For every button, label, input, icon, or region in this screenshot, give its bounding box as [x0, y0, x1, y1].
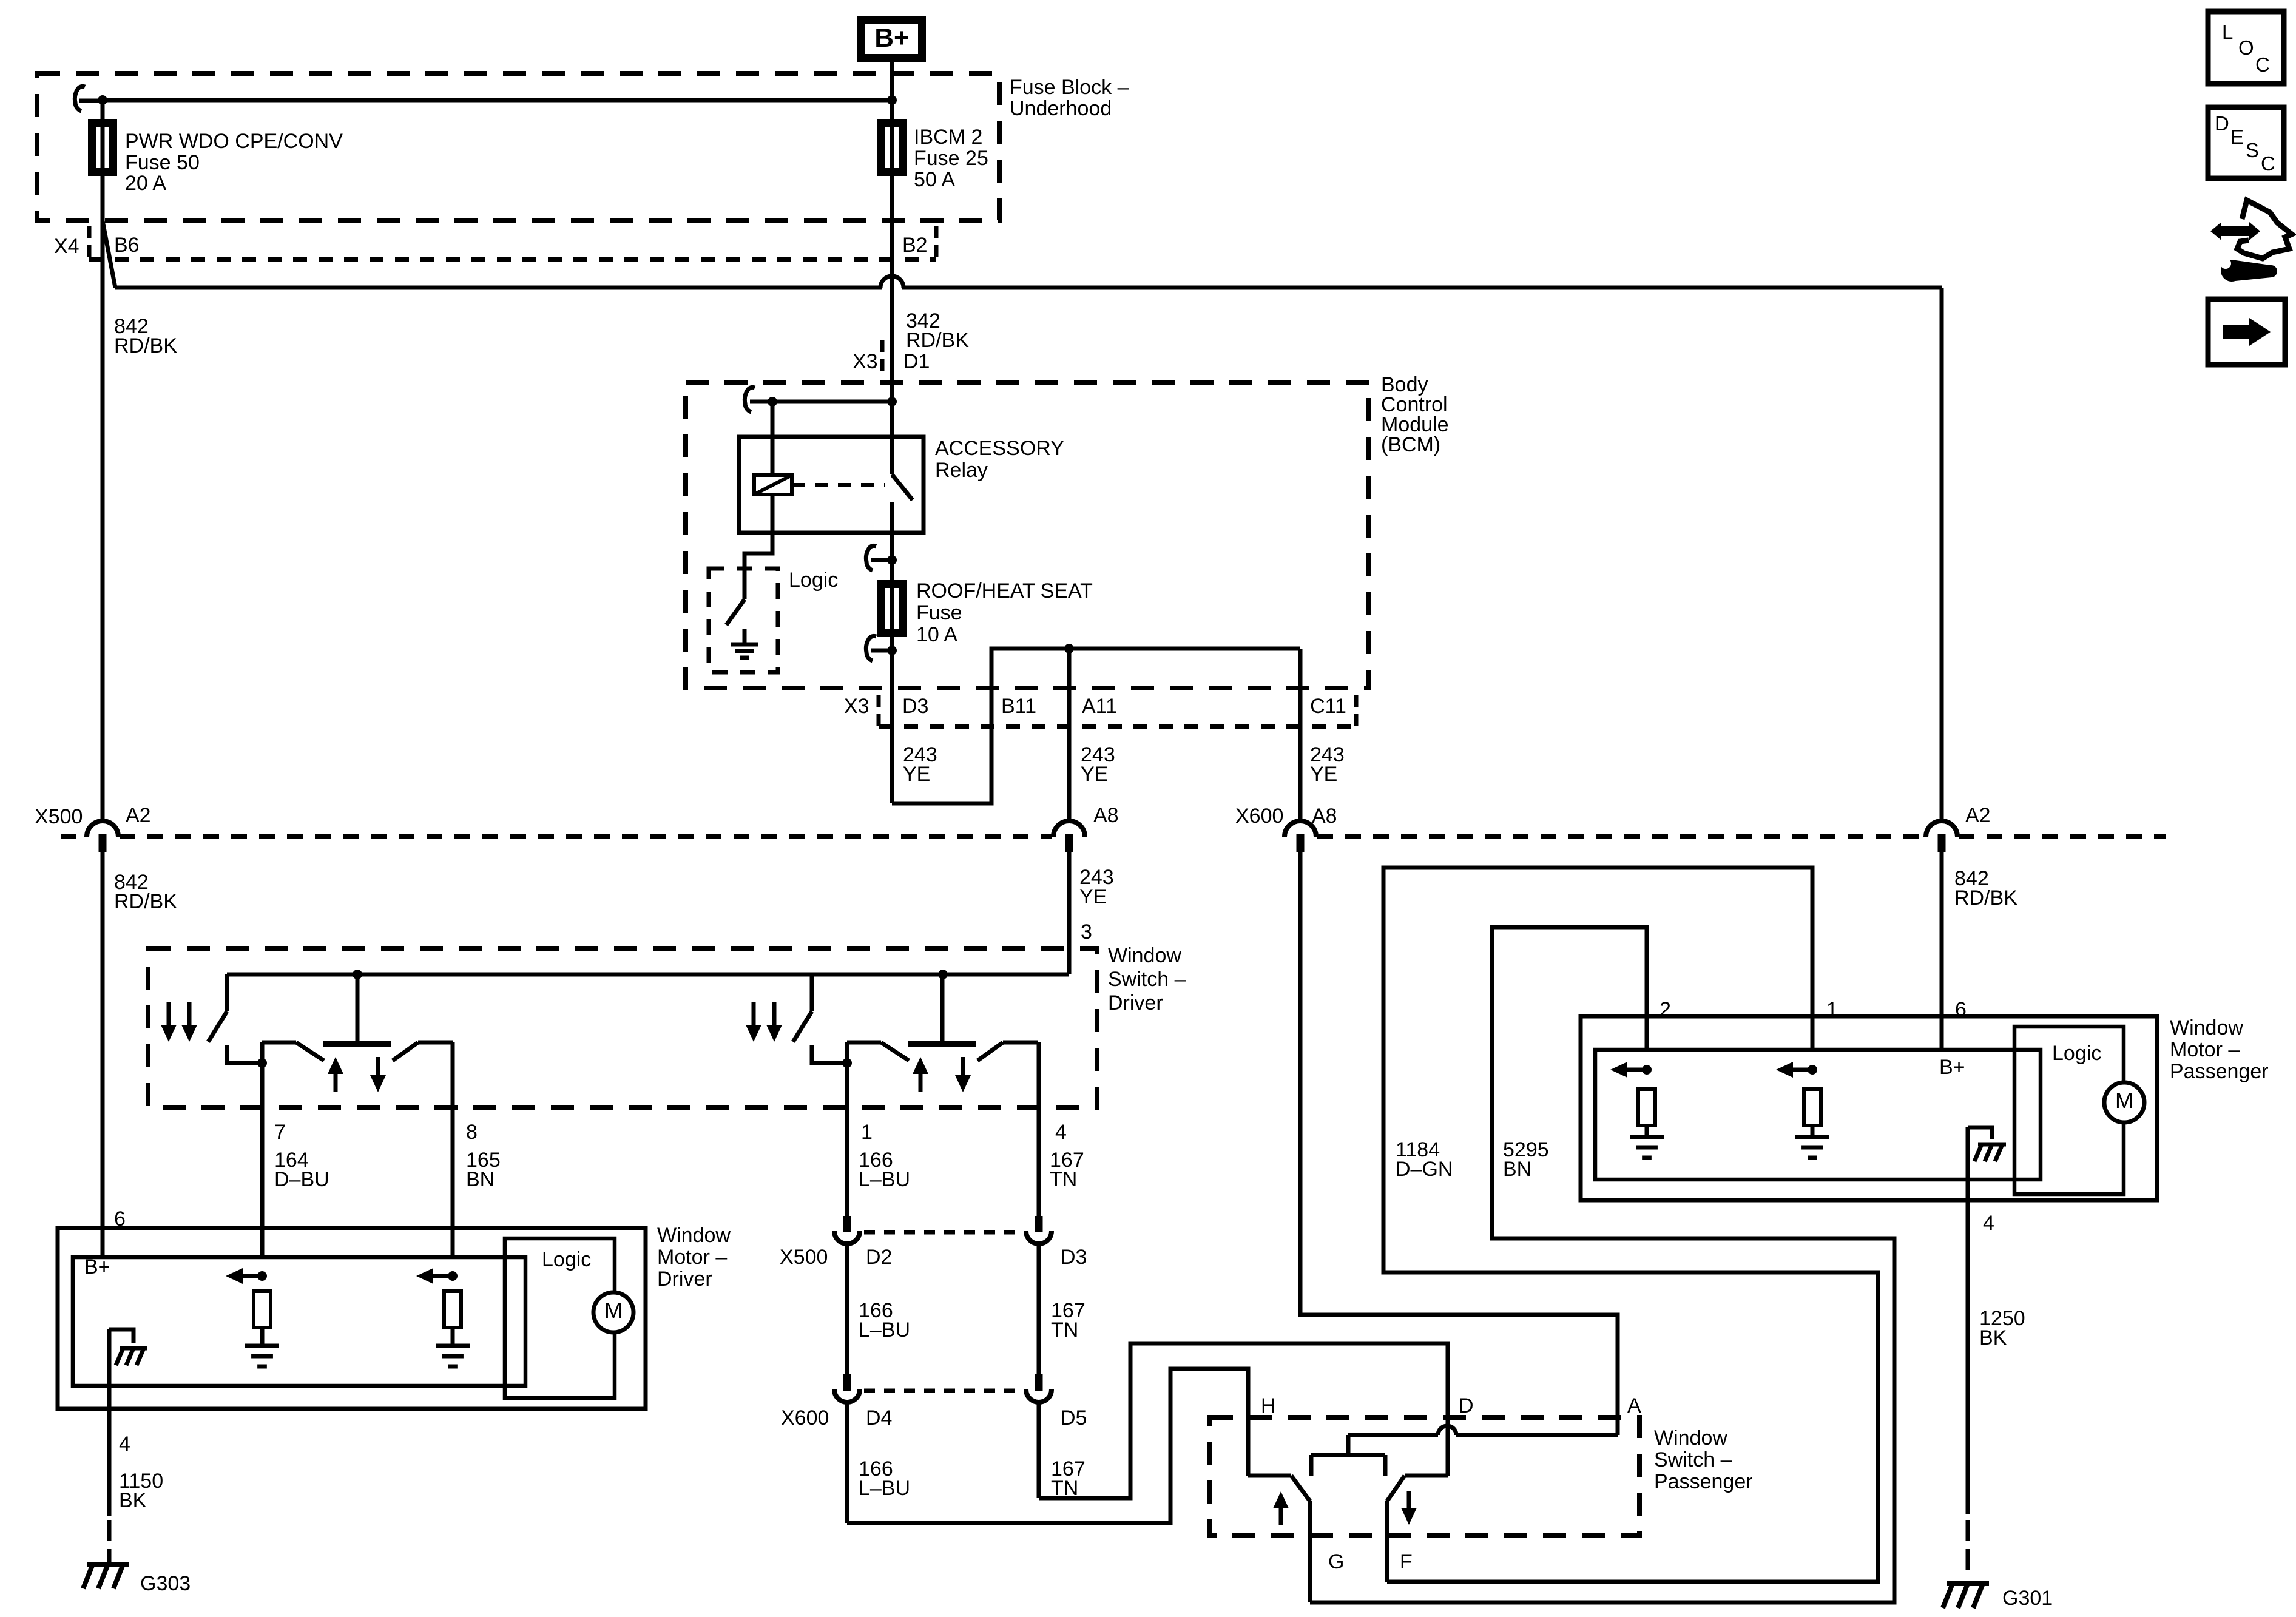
- svg-text:20 A: 20 A: [125, 172, 166, 195]
- svg-text:A2: A2: [1965, 804, 1991, 827]
- svg-text:1: 1: [1826, 998, 1838, 1021]
- svg-text:G303: G303: [140, 1572, 191, 1595]
- svg-text:Driver: Driver: [1108, 991, 1163, 1014]
- svg-text:4: 4: [119, 1433, 130, 1456]
- svg-text:YE: YE: [903, 763, 930, 786]
- svg-text:B+: B+: [874, 23, 909, 53]
- svg-text:X3: X3: [844, 695, 869, 718]
- svg-text:RD/BK: RD/BK: [114, 890, 177, 913]
- svg-text:B+: B+: [84, 1255, 110, 1278]
- svg-text:Driver: Driver: [657, 1268, 712, 1291]
- svg-text:YE: YE: [1079, 885, 1107, 908]
- svg-text:Logic: Logic: [542, 1248, 591, 1271]
- svg-text:Logic: Logic: [789, 569, 838, 592]
- svg-text:2: 2: [1660, 998, 1671, 1021]
- svg-text:D–BU: D–BU: [274, 1168, 329, 1191]
- svg-text:A: A: [1627, 1394, 1641, 1417]
- svg-text:D4: D4: [866, 1406, 892, 1430]
- svg-text:YE: YE: [1310, 763, 1337, 786]
- svg-text:X500: X500: [780, 1246, 828, 1269]
- svg-text:A8: A8: [1312, 805, 1337, 828]
- svg-text:X600: X600: [1235, 805, 1283, 828]
- svg-text:Switch –: Switch –: [1654, 1448, 1732, 1471]
- svg-text:X600: X600: [781, 1406, 829, 1430]
- svg-text:G301: G301: [2002, 1587, 2053, 1610]
- svg-text:ROOF/HEAT SEAT: ROOF/HEAT SEAT: [916, 579, 1093, 603]
- svg-text:6: 6: [114, 1207, 126, 1230]
- svg-text:M: M: [604, 1298, 623, 1323]
- svg-text:L: L: [2222, 21, 2233, 43]
- svg-text:B6: B6: [114, 234, 140, 257]
- svg-text:B11: B11: [1001, 695, 1036, 718]
- svg-text:Passenger: Passenger: [2170, 1060, 2269, 1083]
- svg-text:YE: YE: [1081, 763, 1108, 786]
- svg-text:M: M: [2115, 1088, 2133, 1113]
- svg-text:Switch –: Switch –: [1108, 968, 1186, 991]
- svg-text:D3: D3: [1061, 1246, 1087, 1269]
- svg-text:IBCM 2: IBCM 2: [914, 126, 982, 149]
- svg-text:(BCM): (BCM): [1381, 433, 1440, 456]
- svg-text:G: G: [1328, 1550, 1344, 1573]
- svg-text:D3: D3: [902, 695, 928, 718]
- svg-text:A11: A11: [1082, 695, 1117, 718]
- svg-text:7: 7: [274, 1121, 286, 1144]
- svg-text:BN: BN: [466, 1168, 495, 1191]
- svg-text:L–BU: L–BU: [859, 1168, 910, 1191]
- svg-text:C: C: [2255, 53, 2270, 76]
- svg-text:L–BU: L–BU: [859, 1477, 910, 1500]
- svg-text:Motor –: Motor –: [2170, 1038, 2240, 1061]
- svg-text:D2: D2: [866, 1246, 892, 1269]
- svg-text:H: H: [1261, 1394, 1276, 1417]
- svg-text:Motor –: Motor –: [657, 1246, 727, 1269]
- svg-text:Window: Window: [2170, 1016, 2243, 1039]
- svg-text:Fuse 25: Fuse 25: [914, 147, 988, 170]
- svg-text:C: C: [2261, 152, 2275, 175]
- svg-text:BN: BN: [1503, 1158, 1531, 1181]
- svg-text:Window: Window: [1654, 1426, 1727, 1450]
- svg-text:L–BU: L–BU: [859, 1318, 910, 1342]
- svg-text:Fuse 50: Fuse 50: [125, 151, 200, 174]
- svg-text:Window: Window: [657, 1224, 731, 1247]
- svg-text:6: 6: [1955, 998, 1967, 1021]
- svg-text:Window: Window: [1108, 944, 1181, 967]
- svg-text:Fuse Block –: Fuse Block –: [1010, 76, 1129, 99]
- svg-text:8: 8: [466, 1121, 478, 1144]
- svg-text:B2: B2: [902, 234, 928, 257]
- svg-text:RD/BK: RD/BK: [906, 329, 969, 352]
- svg-text:TN: TN: [1051, 1318, 1078, 1342]
- svg-text:BK: BK: [119, 1489, 147, 1512]
- svg-text:A8: A8: [1093, 804, 1119, 827]
- svg-text:D–GN: D–GN: [1396, 1158, 1453, 1181]
- svg-text:TN: TN: [1050, 1168, 1077, 1191]
- svg-text:S: S: [2246, 139, 2259, 161]
- svg-text:Relay: Relay: [935, 459, 988, 482]
- svg-text:4: 4: [1055, 1121, 1067, 1144]
- svg-text:C11: C11: [1310, 695, 1346, 718]
- svg-text:D5: D5: [1061, 1406, 1087, 1430]
- svg-text:ACCESSORY: ACCESSORY: [935, 437, 1064, 460]
- svg-text:PWR WDO CPE/CONV: PWR WDO CPE/CONV: [125, 130, 343, 153]
- svg-text:X4: X4: [54, 235, 79, 258]
- svg-text:Fuse: Fuse: [916, 601, 962, 624]
- svg-text:A2: A2: [126, 804, 151, 827]
- svg-text:D: D: [1459, 1394, 1474, 1417]
- svg-text:Passenger: Passenger: [1654, 1470, 1753, 1493]
- svg-text:F: F: [1400, 1550, 1413, 1573]
- svg-text:Logic: Logic: [2052, 1042, 2101, 1065]
- svg-text:X500: X500: [35, 805, 83, 828]
- svg-text:D: D: [2215, 112, 2229, 135]
- svg-text:O: O: [2238, 36, 2254, 59]
- svg-text:4: 4: [1983, 1212, 1994, 1235]
- svg-text:50 A: 50 A: [914, 168, 955, 191]
- svg-text:1: 1: [861, 1121, 873, 1144]
- svg-text:X3: X3: [853, 350, 878, 373]
- svg-text:10 A: 10 A: [916, 623, 957, 646]
- svg-text:RD/BK: RD/BK: [1954, 886, 2017, 910]
- svg-text:D1: D1: [903, 350, 930, 373]
- svg-text:E: E: [2230, 126, 2244, 148]
- svg-text:RD/BK: RD/BK: [114, 334, 177, 357]
- svg-text:B+: B+: [1939, 1056, 1965, 1079]
- svg-text:BK: BK: [1979, 1326, 2007, 1349]
- svg-text:3: 3: [1081, 920, 1092, 944]
- svg-text:Underhood: Underhood: [1010, 97, 1112, 120]
